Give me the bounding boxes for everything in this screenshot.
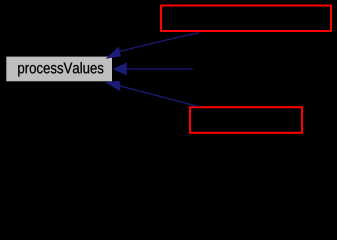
edge from top caller: wire bbox=[120, 33, 199, 52]
edge from bottom caller: wire bbox=[120, 86, 199, 107]
edge from bottom caller: arrowhead bbox=[105, 81, 120, 92]
edge from middle caller: arrowhead bbox=[113, 63, 127, 76]
edge from top caller: arrowhead bbox=[105, 46, 120, 59]
edge from middle caller (hidden node): wire bbox=[127, 68, 194, 70]
node processValues (current function, grey) bbox=[6, 57, 112, 82]
caller node bottom (truncated, red border) bbox=[190, 107, 302, 133]
caller node top (truncated, red border) bbox=[161, 6, 331, 32]
